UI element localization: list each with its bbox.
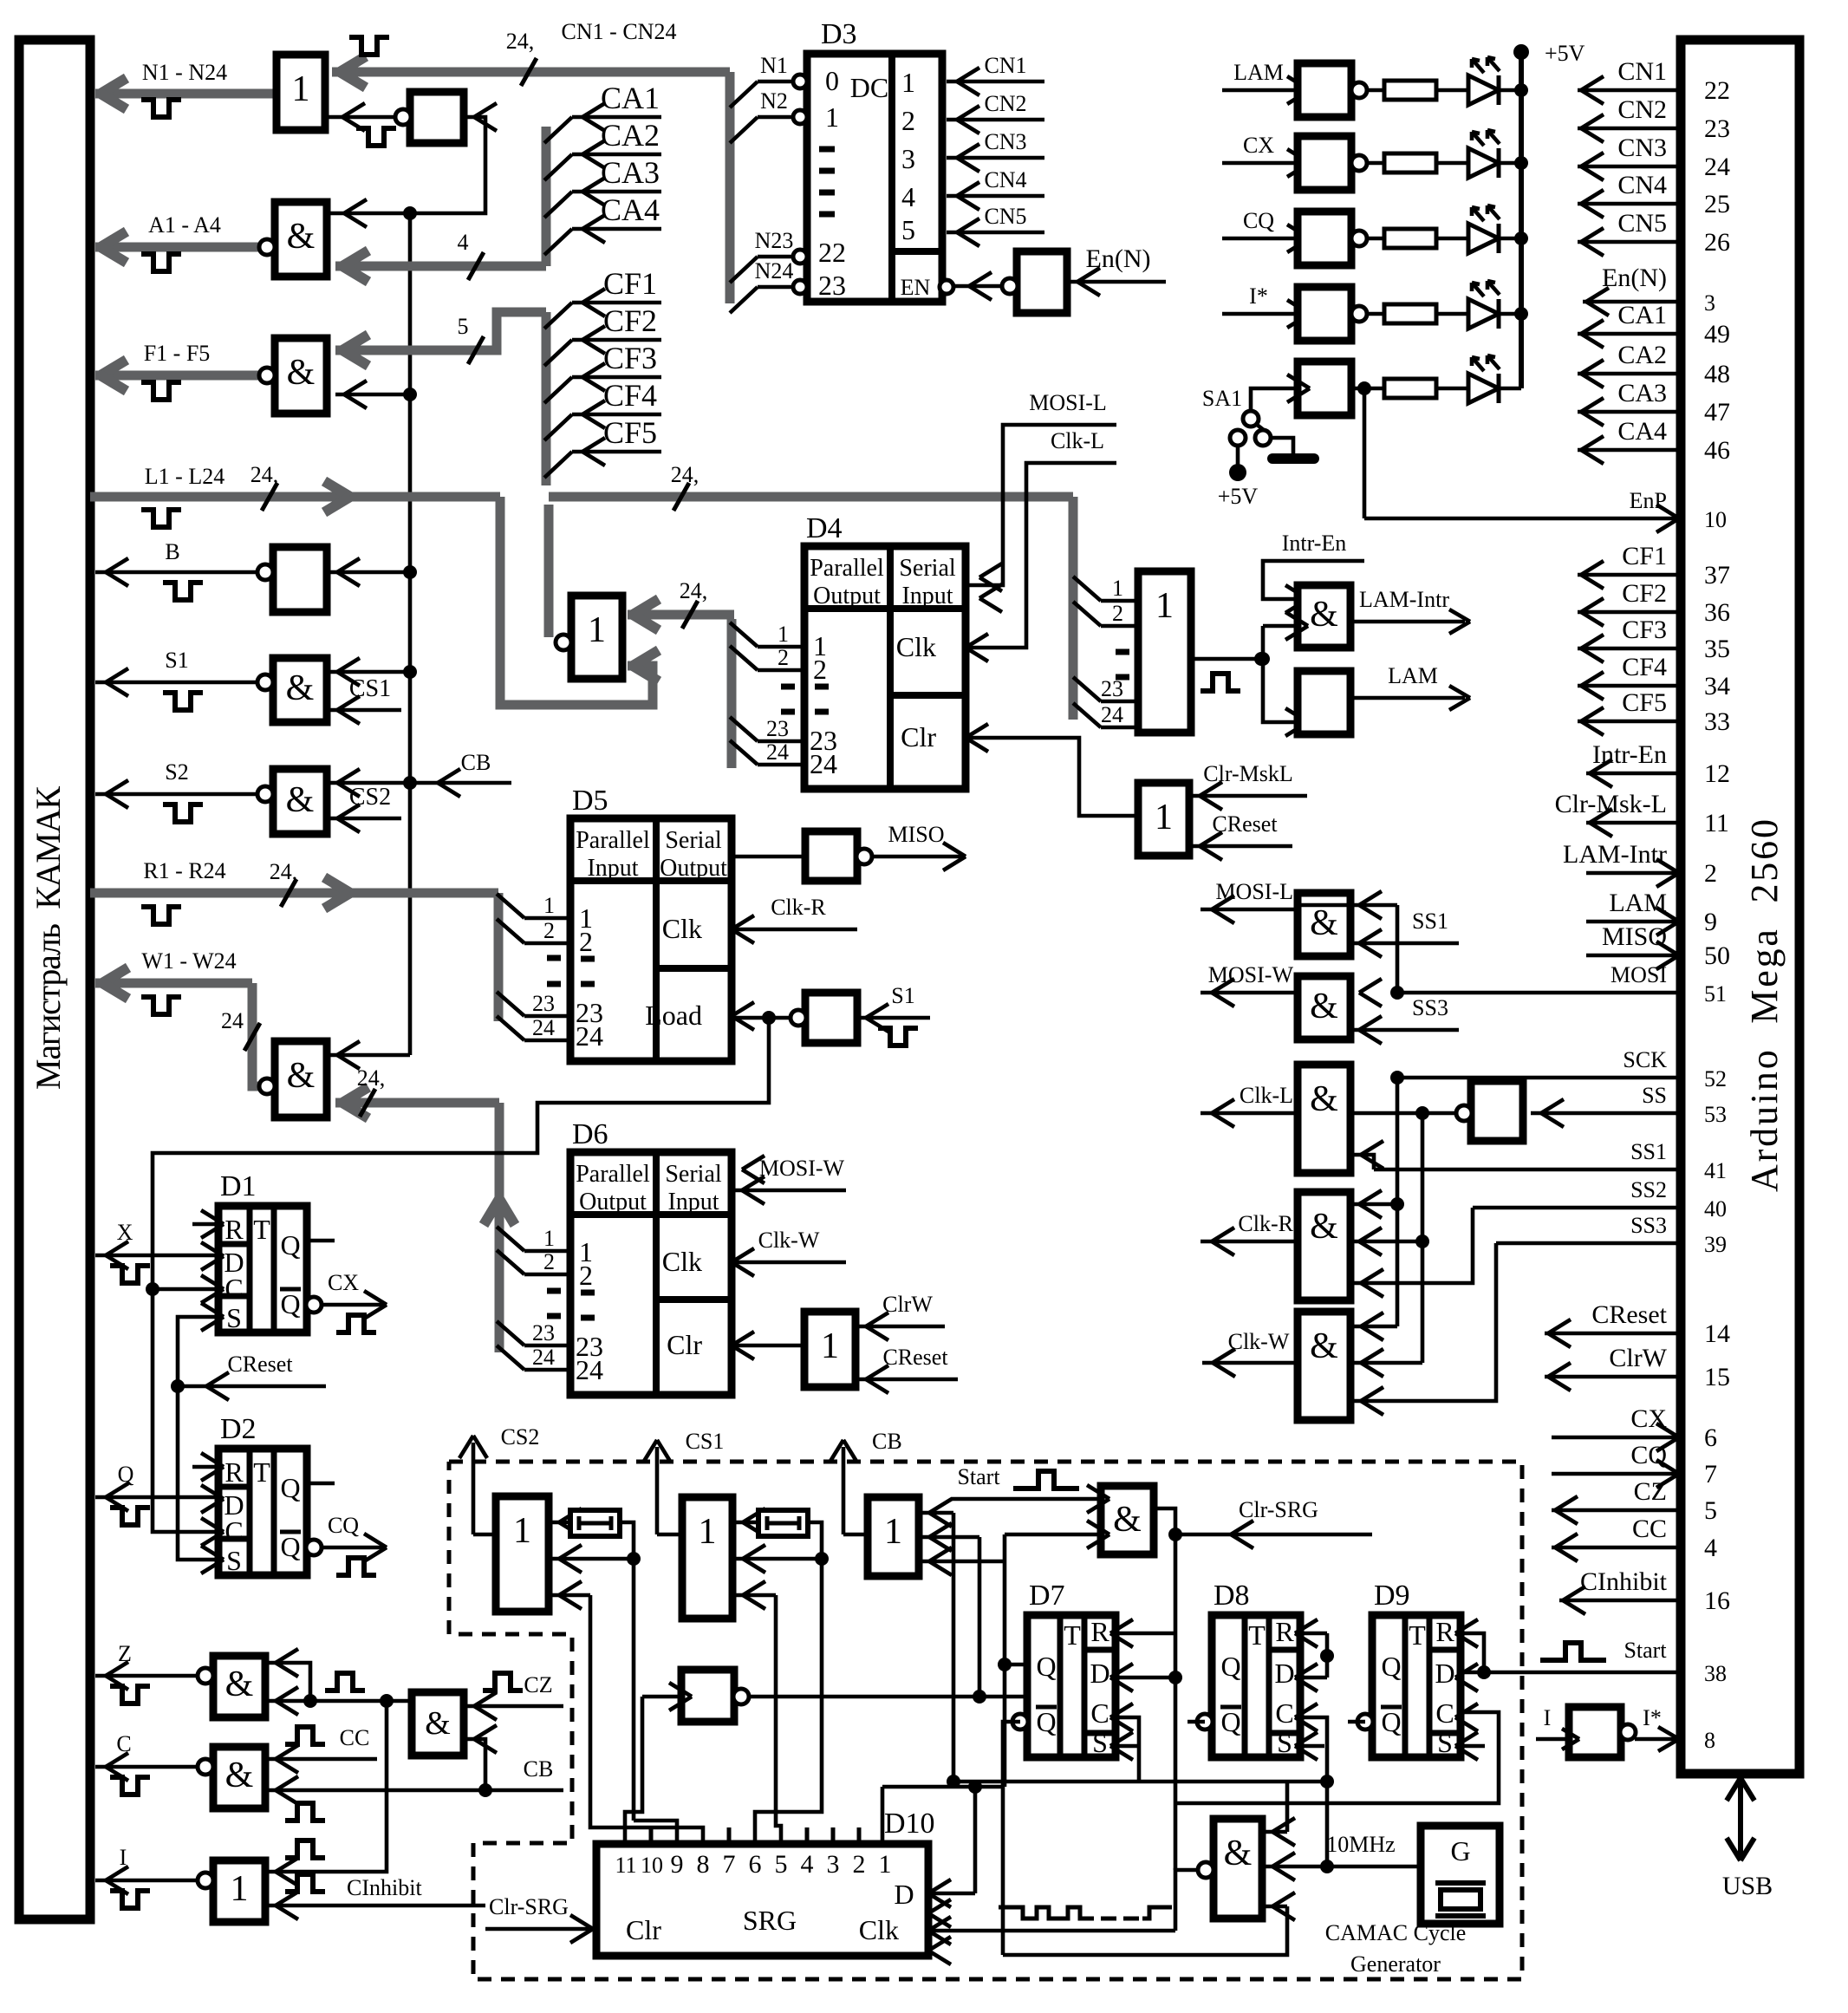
- AND gate (Clk-R): [1298, 1192, 1350, 1300]
- AND gate (S1 driver): [273, 658, 327, 722]
- svg-text:50: 50: [1704, 941, 1730, 970]
- svg-text:8: 8: [697, 1850, 710, 1879]
- svg-text:CA2: CA2: [1617, 341, 1667, 369]
- svg-text:Clk: Clk: [859, 1914, 899, 1945]
- wire CS2 gate mid input: [549, 1557, 634, 1561]
- NAND gate (C driver): [213, 1747, 265, 1808]
- svg-text:Q: Q: [1381, 1651, 1401, 1682]
- svg-text:33: 33: [1704, 707, 1730, 736]
- AND gate (Clk-L): [1298, 1065, 1350, 1173]
- svg-text:LAM: LAM: [1609, 889, 1667, 917]
- waveform symbol SRG pattern: [999, 1907, 1094, 1919]
- svg-text:16: 16: [1704, 1586, 1730, 1615]
- vertical SCK distribution: [1396, 1078, 1400, 1326]
- svg-text:24,: 24,: [671, 462, 700, 487]
- pin 33 CF5: [1578, 720, 1681, 724]
- pin 4 CC: [1552, 1546, 1681, 1550]
- wire CS1 delay feedback: [808, 1522, 822, 1559]
- inverter (Load from S1): [805, 993, 857, 1043]
- OR gate 1 (CS1 shaper): [682, 1497, 732, 1619]
- svg-text:&: &: [1310, 1207, 1338, 1247]
- pulse symbol S1 strobe: [878, 1028, 918, 1046]
- wire SS1 to MOSI-L gate: [1349, 941, 1459, 946]
- svg-text:Clk-L: Clk-L: [1240, 1083, 1293, 1108]
- svg-text:C: C: [1435, 1697, 1454, 1729]
- svg-text:CN5: CN5: [1617, 209, 1667, 238]
- svg-text:+5V: +5V: [1218, 484, 1259, 509]
- svg-text:1: 1: [1112, 576, 1123, 601]
- wire A1-A4 bus to crate: [95, 243, 260, 252]
- svg-text:CReset: CReset: [882, 1345, 948, 1370]
- svg-text:CF1: CF1: [1622, 542, 1667, 570]
- svg-text:D1: D1: [220, 1170, 257, 1202]
- svg-text:CA1: CA1: [601, 81, 660, 115]
- wire R hatches into D5: [497, 894, 524, 918]
- wire D9 D from Start line: [1477, 1665, 1491, 1679]
- LED CX: [1436, 161, 1468, 166]
- node CF1 tap: [544, 303, 572, 329]
- wire N1-N24 bus to crate: [95, 89, 277, 99]
- svg-text:5: 5: [458, 314, 469, 339]
- LED CQ: [1436, 237, 1468, 241]
- wire CS2 output arrow: [472, 1443, 476, 1534]
- wire sequencer tap lines to SRG pins: [968, 1780, 982, 1794]
- pin 7 CQ: [1552, 1472, 1681, 1476]
- svg-text:CQ: CQ: [328, 1513, 359, 1538]
- svg-text:52: 52: [1704, 1066, 1727, 1091]
- svg-text:3: 3: [1704, 290, 1715, 316]
- svg-text:CC: CC: [340, 1725, 370, 1750]
- svg-text:Q: Q: [280, 1229, 300, 1261]
- wire CA breakout bus: [542, 127, 551, 266]
- svg-text:53: 53: [1704, 1102, 1727, 1127]
- inverter (SS): [1471, 1081, 1523, 1141]
- node EN bubble: [940, 280, 953, 294]
- buffer (LAM out): [1298, 671, 1350, 734]
- oscillator G: [1421, 1826, 1500, 1924]
- svg-text:N23: N23: [755, 228, 794, 253]
- SRG unconnected pin ticks: [649, 1827, 654, 1844]
- svg-text:Clr-MskL: Clr-MskL: [1203, 761, 1292, 786]
- svg-text:LAM: LAM: [1233, 60, 1284, 85]
- OR gate 1 (L mask merge): [571, 596, 622, 679]
- wire Clk-W output: [1202, 1361, 1298, 1365]
- svg-text:Clr: Clr: [667, 1329, 702, 1360]
- svg-text:CF1: CF1: [603, 266, 657, 301]
- svg-text:2: 2: [543, 1249, 555, 1274]
- AND gate (MOSI-W): [1298, 976, 1350, 1039]
- svg-text:CInhibit: CInhibit: [347, 1875, 422, 1900]
- pulse symbol N: [141, 100, 181, 117]
- dashed frame CAMAC Cycle Generator: [449, 1462, 1522, 1979]
- pin 3 En(N): [1583, 300, 1681, 304]
- svg-text:I: I: [120, 1845, 127, 1870]
- node EnP branch: [1357, 381, 1371, 395]
- svg-text:1: 1: [292, 69, 310, 109]
- svg-text:SS3: SS3: [1412, 995, 1448, 1020]
- svg-text:S1: S1: [891, 983, 914, 1008]
- svg-text:14: 14: [1704, 1319, 1730, 1348]
- node CB distribution line: [403, 206, 417, 220]
- svg-text:24: 24: [532, 1015, 555, 1040]
- wire CF bus 5: [335, 312, 546, 350]
- svg-text:22: 22: [1704, 76, 1730, 105]
- wire Clk-W inputs: [1350, 1325, 1397, 1329]
- wire W bus vertical to D6 outputs: [495, 1103, 504, 1352]
- svg-text:SRG: SRG: [743, 1905, 797, 1936]
- wire Clk-W input stub: [732, 1261, 846, 1265]
- AND gate (CZ strobe): [412, 1692, 464, 1756]
- pulse symbol B: [163, 583, 203, 600]
- AND gate (clock gate): [1214, 1819, 1262, 1919]
- svg-text:CB: CB: [461, 750, 491, 775]
- svg-text:&: &: [1224, 1834, 1253, 1873]
- svg-text:S: S: [226, 1302, 242, 1333]
- pulse symbol Q: [110, 1508, 150, 1525]
- svg-text:CA4: CA4: [601, 192, 660, 227]
- svg-text:SS1: SS1: [1412, 909, 1448, 934]
- node CF5 tap: [544, 452, 572, 478]
- svg-text:C: C: [224, 1273, 243, 1304]
- wire SCK into Clk-L: [1390, 1071, 1404, 1085]
- wire D7 Qbar: [1003, 1722, 1020, 1955]
- svg-text:CS1: CS1: [349, 675, 391, 702]
- svg-text:23: 23: [532, 1320, 555, 1345]
- svg-text:15: 15: [1704, 1363, 1730, 1391]
- svg-text:24: 24: [576, 1020, 603, 1052]
- svg-text:6: 6: [1704, 1423, 1717, 1452]
- svg-text:D7: D7: [1029, 1580, 1065, 1612]
- svg-text:2: 2: [579, 926, 593, 957]
- svg-text:CN1: CN1: [984, 53, 1026, 78]
- svg-text:L1 - L24: L1 - L24: [145, 464, 224, 489]
- wire D8 C input: [1300, 1717, 1327, 1782]
- LED arrows: [1472, 207, 1484, 221]
- svg-text:CA3: CA3: [601, 155, 660, 190]
- svg-text:S2: S2: [165, 759, 188, 785]
- svg-text:5: 5: [775, 1850, 788, 1879]
- svg-text:&: &: [1310, 987, 1338, 1026]
- wire SS inverted into Clk-L: [1349, 1111, 1456, 1116]
- wire MOSI-W input stub: [732, 1189, 846, 1193]
- svg-text:Clr-SRG: Clr-SRG: [489, 1894, 569, 1919]
- AND gate (MOSI-L): [1298, 893, 1350, 956]
- wire CQ input: [1222, 237, 1298, 241]
- buffer (LAM LED driver): [1298, 63, 1351, 117]
- svg-text:CQ: CQ: [1630, 1441, 1667, 1469]
- pin 12 Intr-En: [1586, 772, 1681, 776]
- svg-text:Start: Start: [957, 1464, 1000, 1489]
- wire mask OR output to Intr gates: [1191, 657, 1261, 661]
- svg-text:1: 1: [901, 67, 915, 98]
- pulse symbol CX: [336, 1315, 376, 1332]
- pin 23 CN2: [1578, 127, 1681, 131]
- wire S1 to crate: [95, 681, 266, 685]
- wire CX input: [1222, 161, 1298, 166]
- wire Load line with node: [732, 1016, 791, 1020]
- svg-text:D2: D2: [220, 1413, 257, 1445]
- svg-text:D: D: [894, 1879, 914, 1910]
- svg-text:LAM: LAM: [1388, 663, 1438, 688]
- svg-text:Arduino Mega 2560: Arduino Mega 2560: [1743, 819, 1786, 1192]
- svg-text:R: R: [1435, 1616, 1454, 1647]
- buffer (MISO driver): [805, 831, 857, 881]
- svg-text:Intr-En: Intr-En: [1592, 740, 1667, 769]
- LED arrows: [1472, 59, 1484, 73]
- svg-text:En(N): En(N): [1086, 244, 1151, 273]
- pin 16 CInhibit: [1559, 1599, 1681, 1603]
- svg-text:22: 22: [818, 237, 846, 268]
- svg-text:F1 - F5: F1 - F5: [144, 341, 211, 366]
- wire R bus down to D5 inputs: [494, 893, 504, 1021]
- wire MOSI to MOSI-L gate: [1298, 903, 1397, 908]
- OR gate 1 (N driver): [277, 55, 325, 130]
- wire SS3 to MOSI-W gate: [1349, 1028, 1459, 1033]
- svg-text:5: 5: [901, 214, 915, 245]
- pin 34 CF4: [1578, 684, 1681, 688]
- svg-text:36: 36: [1704, 598, 1730, 627]
- wire CS1 input: [327, 708, 401, 713]
- svg-text:Clk: Clk: [662, 1246, 702, 1277]
- svg-text:10MHz: 10MHz: [1326, 1832, 1395, 1857]
- svg-text:En(N): En(N): [1602, 264, 1667, 292]
- svg-text:D: D: [1274, 1658, 1294, 1689]
- svg-text:S: S: [226, 1545, 242, 1576]
- wire D4 parallel outputs to mask OR bus: [727, 619, 737, 768]
- wire EnP to Arduino: [1363, 388, 1367, 518]
- svg-text:CReset: CReset: [1591, 1300, 1667, 1329]
- resistor R-LAM: [1366, 88, 1384, 93]
- svg-text:1: 1: [821, 1326, 839, 1366]
- svg-text:R1 - R24: R1 - R24: [143, 858, 225, 883]
- node CF2 tap: [544, 340, 572, 366]
- svg-text:CN3: CN3: [984, 129, 1026, 154]
- wire Start stub input: [951, 1497, 1101, 1502]
- buffer gate (B driver): [273, 547, 327, 612]
- wire W bus from AND gate: [252, 983, 264, 1086]
- pin 9 LAM: [1586, 920, 1681, 924]
- delay element (CS1): [732, 1521, 758, 1525]
- svg-text:Serial: Serial: [665, 827, 722, 854]
- svg-text:Load: Load: [645, 1000, 702, 1031]
- wire D7 C input: [1116, 1717, 1139, 1782]
- pin 35 CF3: [1578, 647, 1681, 651]
- svg-text:38: 38: [1704, 1661, 1727, 1686]
- pin 22 CN1: [1578, 88, 1681, 93]
- svg-text:&: &: [1310, 1079, 1338, 1119]
- svg-text:G: G: [1450, 1835, 1470, 1866]
- svg-text:Output: Output: [660, 855, 727, 882]
- svg-text:2: 2: [853, 1850, 866, 1879]
- svg-text:T: T: [1064, 1619, 1081, 1651]
- wire D6 Clr from OR gate: [732, 1344, 804, 1348]
- svg-text:Start: Start: [1624, 1638, 1667, 1663]
- wire Clk-L output: [1201, 1111, 1298, 1116]
- svg-text:0: 0: [825, 65, 839, 96]
- wire S1 strobe input: [857, 1016, 930, 1020]
- svg-text:&: &: [1310, 903, 1338, 943]
- svg-text:1: 1: [1155, 586, 1174, 626]
- wire D4 Clr from clear OR gate: [966, 738, 1138, 816]
- svg-text:2: 2: [543, 918, 555, 943]
- svg-text:Clr: Clr: [626, 1914, 661, 1945]
- svg-text:CC: CC: [1632, 1515, 1667, 1543]
- svg-text:ClrW: ClrW: [1609, 1344, 1667, 1372]
- wire CReset to D1/D2: [171, 1379, 185, 1393]
- svg-text:24: 24: [1101, 702, 1123, 727]
- svg-text:D5: D5: [572, 785, 608, 817]
- svg-text:B: B: [165, 539, 179, 564]
- AND gate (W driver): [275, 1041, 327, 1117]
- svg-text:Serial: Serial: [665, 1161, 722, 1188]
- svg-text:CA2: CA2: [601, 118, 660, 153]
- svg-text:7: 7: [723, 1850, 736, 1879]
- pulse symbol CInhibit: [285, 1874, 325, 1892]
- wire CC input: [265, 1757, 377, 1762]
- AND gate (LAM-Intr): [1298, 585, 1350, 648]
- OR gate 1 (CB shaper): [868, 1497, 919, 1576]
- wire Z to crate: [95, 1674, 208, 1678]
- resistor R-CQ: [1366, 237, 1384, 241]
- svg-text:51: 51: [1704, 981, 1727, 1006]
- svg-text:25: 25: [1704, 190, 1730, 218]
- svg-text:Output: Output: [813, 583, 881, 609]
- svg-text:&: &: [425, 1705, 451, 1742]
- wire clock gate output to SRG Clk: [1175, 1870, 1198, 1931]
- svg-text:&: &: [1113, 1500, 1142, 1540]
- delay element (CS2): [549, 1521, 570, 1525]
- svg-text:Parallel: Parallel: [810, 555, 884, 582]
- svg-text:Generator: Generator: [1350, 1951, 1441, 1977]
- svg-text:C: C: [1275, 1697, 1293, 1729]
- svg-text:SS1: SS1: [1630, 1139, 1667, 1164]
- svg-text:Q: Q: [1036, 1651, 1056, 1682]
- svg-text:T: T: [1248, 1619, 1266, 1651]
- svg-text:Clk: Clk: [662, 913, 702, 944]
- svg-text:Clk-R: Clk-R: [1238, 1211, 1293, 1236]
- svg-text:CInhibit: CInhibit: [1580, 1567, 1668, 1596]
- svg-text:SA1: SA1: [1202, 386, 1242, 411]
- svg-text:24: 24: [1704, 153, 1730, 181]
- svg-text:9: 9: [1704, 908, 1717, 936]
- wire L masked bus to hatches: [544, 505, 554, 637]
- wire CZ gate low input from CB: [464, 1739, 485, 1790]
- wire CF breakout bus: [542, 312, 551, 485]
- svg-text:Input: Input: [901, 583, 953, 609]
- svg-text:MOSI-W: MOSI-W: [759, 1156, 845, 1181]
- AND gate (Clk-W): [1298, 1312, 1350, 1420]
- pin 48 CA2: [1578, 372, 1681, 376]
- NAND gate (Z driver): [213, 1656, 265, 1717]
- svg-text:D10: D10: [884, 1808, 935, 1840]
- pulse symbol N-en: [356, 128, 396, 146]
- svg-text:Clk-W: Clk-W: [1228, 1329, 1290, 1354]
- svg-text:CA3: CA3: [1617, 379, 1667, 407]
- svg-text:USB: USB: [1722, 1872, 1773, 1900]
- svg-text:I*: I*: [1249, 283, 1268, 309]
- svg-text:T: T: [1409, 1619, 1426, 1651]
- wire Clk-L net stub: [966, 463, 1116, 648]
- svg-text:6: 6: [749, 1850, 762, 1879]
- svg-text:39: 39: [1704, 1232, 1727, 1257]
- pulse symbol Z strobe: [325, 1673, 365, 1691]
- wire SRG pin9 riser: [634, 1821, 677, 1844]
- svg-text:12: 12: [1704, 759, 1730, 788]
- svg-text:EnP: EnP: [1630, 488, 1667, 513]
- wire phase line to D7 area: [749, 1695, 979, 1699]
- svg-text:S1: S1: [165, 648, 188, 673]
- pulse symbol LAM: [1201, 674, 1240, 691]
- svg-text:23: 23: [1704, 114, 1730, 143]
- vertical SS-inv distribution: [1421, 1113, 1425, 1363]
- wire W gate top input from CB line: [327, 1053, 410, 1058]
- pin 49 CA1: [1578, 332, 1681, 336]
- wire Z gate inputs: [265, 1663, 310, 1701]
- svg-text:&: &: [287, 1056, 316, 1096]
- wire D7 Q to CB gate riser: [1005, 1663, 1027, 1667]
- node rail CQ: [1514, 231, 1528, 245]
- svg-text:MISO: MISO: [888, 822, 944, 847]
- pin 51 MOSI: [1397, 991, 1681, 995]
- svg-text:N1: N1: [760, 53, 788, 78]
- pulse symbol R: [141, 907, 181, 924]
- wire LAM input: [1222, 88, 1298, 93]
- LED arrows: [1472, 132, 1484, 146]
- wire Start gate low input: [1005, 1533, 1101, 1537]
- svg-text:2: 2: [579, 1260, 593, 1291]
- node CA4 tap: [544, 229, 572, 255]
- pin 5 CZ: [1552, 1508, 1681, 1513]
- pulse symbol A: [141, 254, 181, 271]
- svg-text:Input: Input: [587, 855, 638, 882]
- svg-text:CF3: CF3: [603, 341, 657, 375]
- pin 52 SCK: [1397, 1076, 1681, 1080]
- svg-text:24: 24: [766, 739, 789, 765]
- svg-text:CS2: CS2: [349, 784, 391, 811]
- pulse symbol CN: [349, 37, 389, 55]
- +5V rail: [1519, 52, 1524, 388]
- buffer (switch LED driver): [1298, 362, 1351, 415]
- svg-text:10: 10: [1704, 507, 1727, 532]
- svg-text:5: 5: [1704, 1496, 1717, 1525]
- OR gate 1 (L mask output): [1138, 571, 1191, 733]
- node CF3 tap: [544, 377, 572, 403]
- svg-text:CF5: CF5: [1622, 688, 1667, 717]
- inverter (phase): [681, 1670, 734, 1722]
- pulse symbol CB in: [285, 1803, 325, 1821]
- svg-text:11: 11: [615, 1853, 636, 1878]
- wire CN1..CN5 outputs of D3: [947, 80, 1044, 84]
- pulse symbol F: [141, 382, 181, 400]
- svg-text:LAM-Intr: LAM-Intr: [1359, 587, 1449, 612]
- svg-text:48: 48: [1704, 360, 1730, 388]
- buffer (CQ LED driver): [1298, 212, 1351, 265]
- svg-text:ClrW: ClrW: [882, 1292, 933, 1317]
- svg-text:CS2: CS2: [501, 1424, 540, 1449]
- wire D6 parallel outputs to W bus: [497, 1227, 524, 1251]
- wire L bus branch to OR input (U shape): [500, 497, 653, 705]
- wire CX output: [321, 1303, 387, 1307]
- buffer (I inverter): [1569, 1707, 1621, 1757]
- svg-text:SS: SS: [1642, 1083, 1667, 1108]
- pulse symbol CQ: [336, 1558, 376, 1575]
- wire W 24-bus input from D6: [335, 1098, 499, 1108]
- pulse symbol W: [141, 997, 181, 1014]
- pulse symbol I top: [285, 1840, 325, 1858]
- pulse symbol CC: [285, 1727, 325, 1744]
- svg-text:SS3: SS3: [1630, 1213, 1667, 1238]
- svg-text:CN2: CN2: [984, 91, 1026, 116]
